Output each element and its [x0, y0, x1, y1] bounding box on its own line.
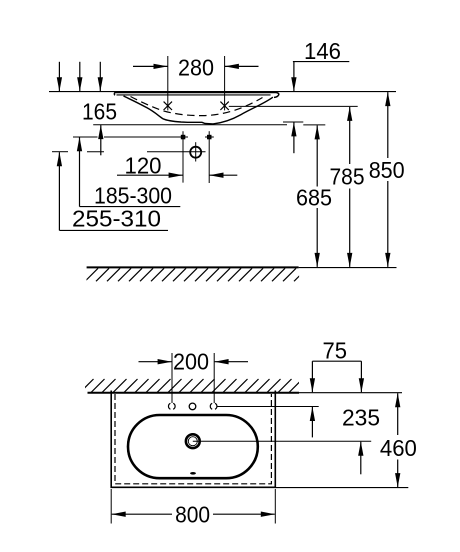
basin hidden outline dashed: [115, 394, 271, 484]
mounting hole cross right: [220, 102, 228, 110]
wall band line thick: [88, 392, 300, 394]
dimension 75 up arrow: [311, 407, 313, 437]
wire extension line from left cross: [167, 56, 169, 110]
svg-text:800: 800: [175, 501, 210, 527]
svg-text:255-310: 255-310: [72, 206, 161, 232]
wire 200 extension lines: [171, 353, 173, 403]
wire 785 extension line: [229, 105, 358, 107]
top down arrow for 185-300: [79, 62, 81, 92]
svg-text:235: 235: [342, 405, 380, 431]
svg-text:75: 75: [323, 338, 348, 364]
basin deck underside line: [117, 94, 271, 96]
dimension 120 arrows: [117, 174, 183, 176]
basin outline solid rect: [111, 391, 275, 488]
dimension 235 up arrow: [360, 442, 362, 475]
wire drain level line plan: [193, 440, 371, 442]
wire basin front extension: [275, 487, 408, 489]
wire wall extension thin: [299, 392, 402, 394]
dimension 75 down arrow: [311, 361, 313, 392]
dimension 685 line: [316, 125, 318, 186]
top down arrow for 255-310: [58, 62, 60, 92]
faucet hole dot left: [181, 135, 186, 140]
faucet circle left dashed: [168, 403, 175, 409]
svg-text:146: 146: [304, 38, 341, 64]
dimension 460 line: [397, 393, 399, 435]
wire extension line from right cross: [224, 56, 226, 110]
wall hatching: [80, 379, 303, 393]
dimension 235 down arrow: [360, 361, 362, 392]
wire faucet level line segments: [73, 136, 98, 138]
basin outer bowl curve: [124, 96, 273, 124]
dimension 146 leader: [293, 61, 349, 63]
wire wall line: [49, 91, 396, 93]
svg-text:280: 280: [178, 55, 214, 81]
dimension 165 up arrow: [100, 125, 102, 155]
dimension 146 lower tick: [283, 121, 303, 123]
mounting hole cross left: [164, 102, 172, 110]
drain inner circle: [188, 437, 197, 446]
wire drain vertical: [195, 142, 197, 161]
dimension 185-300 arrow and underline: [79, 137, 81, 206]
svg-text:850: 850: [369, 157, 405, 183]
dimension 280 arrows: [133, 65, 168, 67]
dimension 146 up arrow: [293, 122, 295, 153]
wire faucet dot verticals: [182, 131, 184, 182]
svg-text:200: 200: [173, 349, 209, 375]
dimension 850 line: [387, 92, 389, 158]
wire floor extension thin: [299, 267, 397, 269]
dimension 685 tick: [303, 124, 325, 126]
floor hatching: [85, 268, 307, 281]
dimension 255-310 arrow and underline: [58, 152, 60, 230]
basin rim top line: [114, 93, 278, 98]
wire bowl bottom reference line: [93, 124, 287, 126]
svg-text:460: 460: [380, 435, 417, 461]
dimension 146 down arrow: [293, 62, 295, 92]
wire drain level line segments: [52, 151, 68, 153]
faucet circle middle: [189, 403, 196, 410]
svg-text:165: 165: [82, 99, 117, 125]
wire faucet level line plan: [217, 406, 319, 408]
dimension 785 line: [349, 107, 351, 164]
basin inner bowl dashed: [131, 97, 263, 116]
overflow slot: [190, 472, 196, 475]
drain outer circle: [186, 434, 200, 448]
floor line thick: [87, 266, 299, 268]
drain circle side view: [190, 147, 201, 158]
faucet circle right dashed: [210, 403, 217, 409]
bowl oval plan: [128, 415, 258, 478]
svg-text:685: 685: [296, 185, 332, 211]
dimension 75 leader: [312, 360, 361, 362]
svg-text:785: 785: [330, 164, 365, 190]
dimension 800 line: [112, 513, 172, 515]
top down arrow for 165: [99, 62, 101, 92]
faucet hole dot right: [207, 135, 212, 140]
wire 800 extension lines: [110, 489, 112, 524]
dimension 200 arrows: [139, 361, 172, 363]
